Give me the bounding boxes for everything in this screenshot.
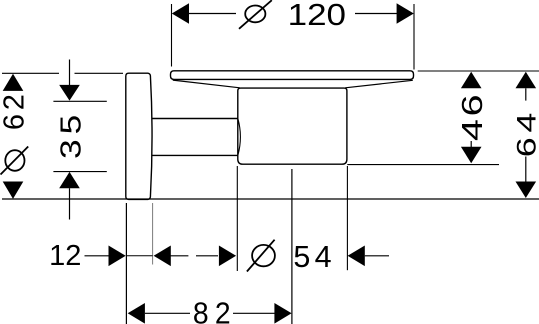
extension line lower bbox=[53, 171, 106, 173]
svg-text:62: 62 bbox=[0, 90, 30, 130]
extension line right (cup right) bbox=[346, 166, 348, 270]
diameter symbol of ⌀54 bbox=[247, 240, 275, 272]
extension line left (cup left) bbox=[236, 166, 238, 271]
dim line left segment bbox=[145, 312, 190, 314]
arrow right of ⌀120 bbox=[397, 3, 414, 24]
extension line top (dish top level) bbox=[418, 70, 539, 72]
arrow top of ⌀62 bbox=[3, 74, 24, 91]
tail below top arrow bbox=[525, 88, 527, 100]
arrow top of 64 bbox=[516, 72, 537, 89]
arrow left of ⌀120 bbox=[172, 3, 189, 24]
arrow bottom of ⌀62 bbox=[3, 182, 24, 199]
svg-text:120: 120 bbox=[288, 0, 346, 32]
dimension ⌀120 (top) bbox=[172, 4, 415, 70]
long extension line at plate bottom level bbox=[2, 198, 539, 200]
tail above bbox=[69, 60, 71, 86]
extension line right (cup centre line) bbox=[291, 169, 293, 324]
tail below bbox=[69, 188, 71, 219]
svg-text:82: 82 bbox=[193, 297, 237, 324]
wall plate (escutcheon) bbox=[126, 73, 152, 199]
tail right of right arrow bbox=[365, 255, 389, 257]
extension line top (plate top level) bbox=[2, 72, 123, 74]
extension line left (wall line, shared with 82) bbox=[125, 203, 127, 324]
dimension ⌀62 (left, vertical) bbox=[2, 72, 123, 74]
extension line left bbox=[171, 4, 173, 67]
small tail below text bbox=[470, 141, 472, 147]
dimension 64 (right outer, vertical) bbox=[525, 88, 527, 181]
svg-text:12: 12 bbox=[49, 240, 81, 272]
arrow bottom of 64 bbox=[516, 182, 537, 199]
dimension 46 (right inner, vertical) bbox=[347, 71, 539, 165]
arrow left-pointing at ⌀54 right line bbox=[348, 246, 365, 267]
arrow right of 82 bbox=[274, 303, 291, 324]
arm (wall bar) bbox=[152, 119, 241, 156]
arrow left-pointing of 12 bbox=[154, 246, 171, 267]
dim line left segment bbox=[189, 13, 236, 15]
dimension 82 (bottom) bbox=[145, 169, 292, 324]
arrow upper of 35 (pointing down) bbox=[59, 85, 80, 101]
tail left of left arrow bbox=[196, 255, 218, 257]
svg-text:35: 35 bbox=[55, 110, 87, 159]
extension line cup bottom level bbox=[347, 164, 499, 166]
arrow bottom of 46 bbox=[461, 147, 482, 164]
arrow lower of 35 (pointing up) bbox=[59, 172, 80, 188]
diameter symbol of ⌀62 bbox=[1, 147, 29, 175]
svg-text:46: 46 bbox=[457, 92, 489, 141]
dish (soap dish plate, side profile) bbox=[171, 71, 414, 88]
dimension ⌀54 (bottom middle) bbox=[196, 166, 389, 271]
tail right of right arrow bbox=[170, 255, 188, 257]
arrow right-pointing of 12 bbox=[109, 246, 126, 267]
diameter symbol of ⌀120 bbox=[239, 0, 272, 29]
dimension 35 (left inner, vertical) bbox=[53, 60, 106, 220]
dimension 12 (bottom left) bbox=[85, 203, 189, 324]
arrow left of 82 bbox=[128, 303, 145, 324]
extension line right (plate face) bbox=[152, 203, 154, 265]
svg-text:64: 64 bbox=[511, 108, 539, 157]
arrow left-pointing into ⌀54 left line bbox=[219, 246, 236, 267]
dim line right segment bbox=[355, 13, 397, 15]
svg-text:54: 54 bbox=[293, 240, 336, 274]
tail left of left arrow bbox=[85, 255, 109, 257]
extension line upper bbox=[53, 100, 106, 102]
arrow top of 46 bbox=[461, 72, 482, 89]
dim line right segment bbox=[233, 312, 275, 314]
cup (holder body) bbox=[238, 88, 347, 164]
tail above bottom arrow bbox=[525, 157, 527, 182]
extension line right bbox=[413, 4, 415, 70]
thin line through gap bbox=[126, 255, 152, 257]
